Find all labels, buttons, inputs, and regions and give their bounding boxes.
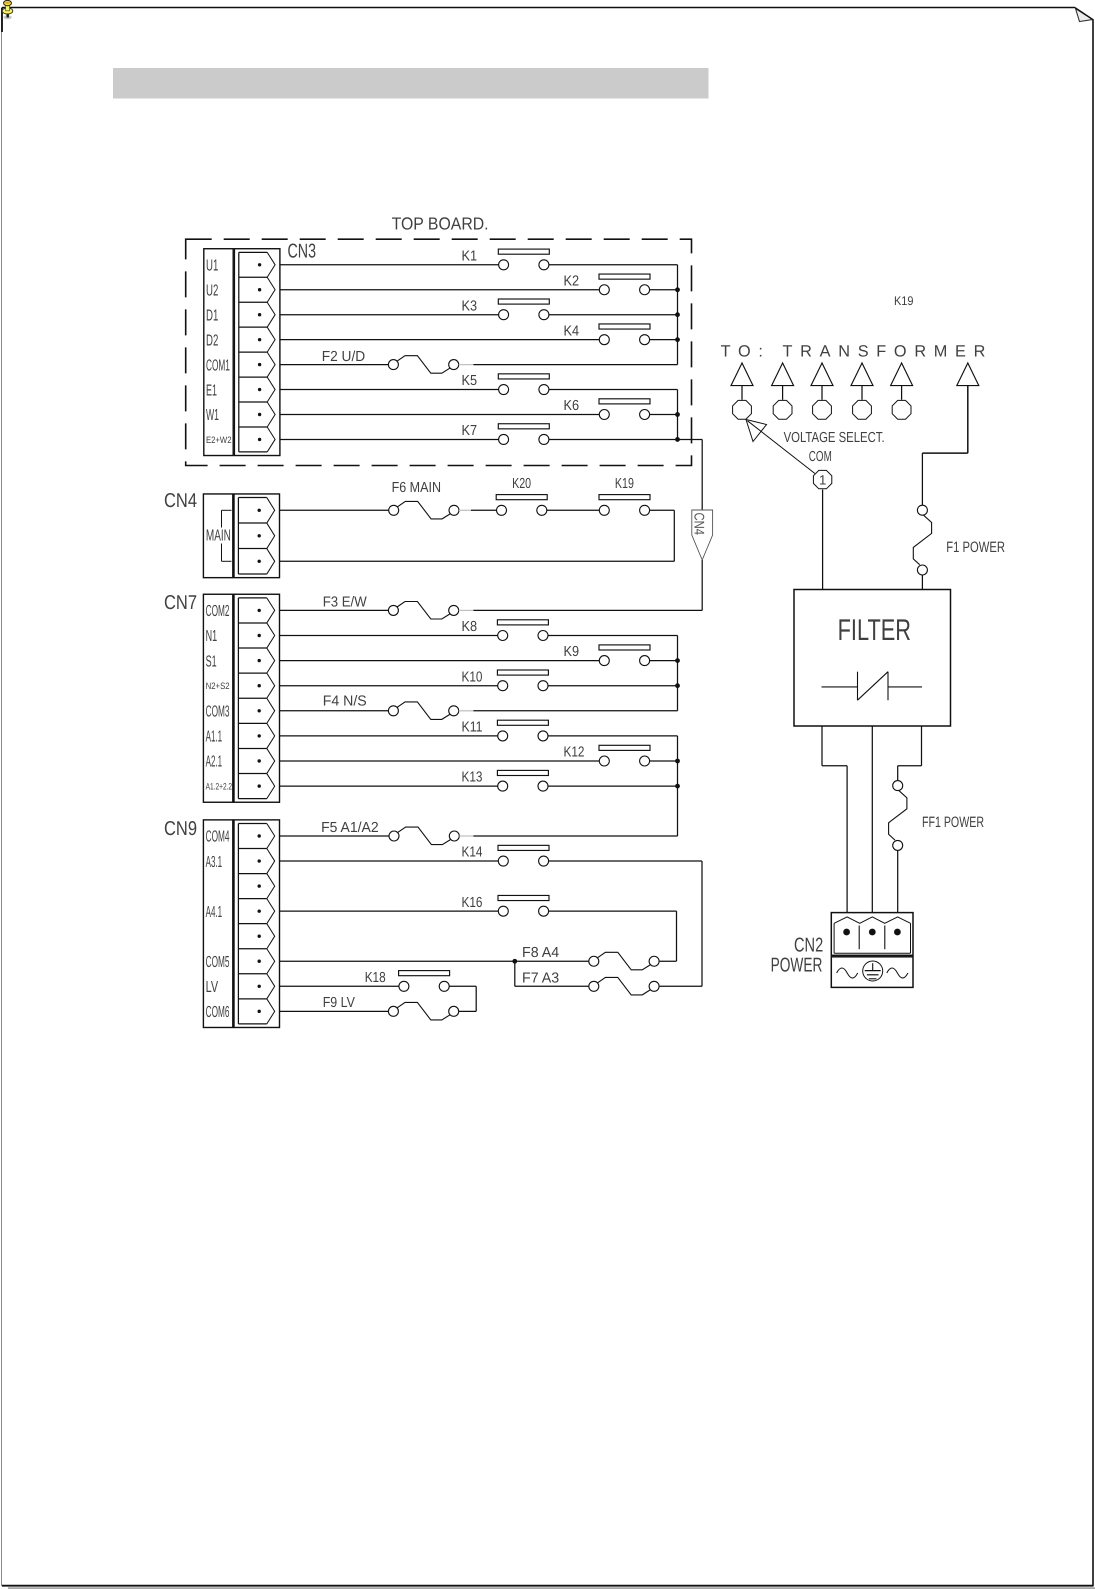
relay K1 — [462, 248, 550, 269]
svg-text:CN3: CN3 — [288, 241, 317, 263]
svg-text:U2: U2 — [206, 282, 218, 299]
svg-text:F1 POWER: F1 POWER — [946, 539, 1005, 556]
relay K13 — [462, 770, 549, 791]
junction K7 — [675, 437, 680, 442]
wire COM3 to F4 — [280, 710, 388, 712]
svg-text:U1: U1 — [206, 258, 218, 275]
wire K11 to bus — [548, 735, 678, 737]
svg-text:CN7: CN7 — [164, 592, 197, 614]
svg-text:K3: K3 — [462, 298, 478, 314]
svg-text:K19: K19 — [894, 294, 914, 308]
fuse F7 — [522, 971, 659, 995]
svg-text:N1: N1 — [206, 628, 218, 645]
svg-text:COM: COM — [809, 449, 832, 465]
wire K12 to bus — [650, 760, 678, 762]
connector CN7 body — [203, 594, 279, 802]
fuse F1 — [913, 505, 1005, 575]
junction K4 — [675, 337, 680, 342]
wire A2.1 to K12 — [280, 760, 599, 762]
page right border — [1092, 20, 1094, 1587]
wire LV to K18 — [280, 985, 399, 987]
wire K8 to bus — [548, 635, 678, 637]
wire COM1 to F2 — [280, 364, 388, 366]
wire COM5 branch to F7 — [515, 961, 589, 986]
svg-text:K12: K12 — [564, 745, 585, 761]
fuse F4 — [323, 694, 459, 720]
wire D1 to K3 — [280, 314, 499, 316]
svg-text:K19: K19 — [615, 476, 634, 492]
page left border — [1, 8, 4, 1587]
svg-text:F6 MAIN: F6 MAIN — [392, 480, 441, 496]
junction K10 — [675, 683, 680, 688]
wire E1 to K5 — [280, 389, 499, 391]
svg-text:FILTER: FILTER — [838, 614, 911, 647]
wire K20 to K19 — [547, 509, 600, 511]
COM node 1 — [813, 470, 831, 488]
wire S1 to K9 — [280, 660, 599, 662]
junction COM5 branch — [512, 959, 517, 964]
wire K6 to bus — [650, 414, 678, 416]
connector CN2 body — [831, 913, 913, 956]
wire K5 to bus — [549, 389, 678, 391]
wire FILTER left out to CN2 pin1 — [822, 726, 847, 913]
svg-text:CN9: CN9 — [164, 818, 197, 840]
relay K7 — [462, 423, 550, 444]
wire A4.1 to K16 — [280, 910, 498, 912]
COM label — [809, 449, 832, 465]
CN2 POWER label — [771, 955, 823, 977]
wire A1.1 to K11 — [280, 735, 498, 737]
svg-text:N2+S2: N2+S2 — [206, 681, 230, 691]
transformer terminal arrow 6 — [957, 363, 979, 386]
svg-text:S1: S1 — [206, 653, 217, 670]
svg-text:A1.1: A1.1 — [206, 729, 223, 746]
wire U1 to K1 — [280, 264, 499, 266]
svg-text:K13: K13 — [462, 770, 483, 786]
transformer terminal arrow 4 — [851, 363, 873, 419]
page top border — [2, 7, 1075, 9]
wire K1 to bus — [549, 264, 678, 266]
wire to CN4 flag vertical — [701, 439, 703, 510]
svg-text:K2: K2 — [564, 273, 580, 289]
fuse F2 — [322, 349, 459, 373]
CN4 MAIN group label — [206, 510, 232, 561]
svg-text:D2: D2 — [206, 332, 218, 349]
svg-text:F9 LV: F9 LV — [323, 995, 356, 1011]
CN2 lower section with AC and earth symbols — [831, 957, 913, 988]
relay K20 — [496, 476, 547, 515]
svg-text:K4: K4 — [564, 323, 580, 339]
wire K10 to bus — [548, 685, 678, 687]
wire E2+W2 to K7 — [280, 438, 499, 440]
bus wire K11-F5 vertical — [677, 736, 679, 836]
wire A3.1 to K14 — [280, 860, 498, 862]
wire K19 return loop to CN4 pin3 — [280, 510, 674, 561]
TOP BOARD title — [392, 214, 489, 234]
wire COM to FILTER — [822, 490, 824, 590]
node flag CN4 — [691, 510, 712, 560]
bus wire K8-F4 vertical — [677, 636, 679, 711]
junction K12 row — [675, 759, 680, 764]
bus wire K5-K7 vertical — [677, 390, 679, 440]
wire F2 to bus (gray then black) — [459, 364, 678, 366]
wire F1 to FILTER — [921, 575, 923, 590]
wire FF1 to CN2 pin3 — [897, 850, 899, 912]
svg-text:F3 E/W: F3 E/W — [323, 595, 367, 611]
VOLTAGE SELECT. label — [784, 430, 885, 446]
wire CN4 flag to F3 output — [701, 560, 703, 610]
svg-text:F5 A1/A2: F5 A1/A2 — [321, 820, 379, 836]
wire FILTER mid out to CN2 pin2 — [871, 726, 873, 913]
relay K6 — [564, 398, 651, 419]
svg-text:CN4: CN4 — [691, 513, 707, 536]
svg-text:K16: K16 — [462, 895, 483, 911]
stray label K19 — [894, 294, 914, 308]
junction K3 — [675, 312, 680, 317]
junction K6 — [675, 412, 680, 417]
svg-text:COM5: COM5 — [206, 954, 230, 971]
svg-text:COM6: COM6 — [206, 1004, 230, 1021]
top board dashed boundary — [186, 239, 692, 465]
svg-text:K10: K10 — [462, 669, 483, 685]
svg-text:A2.1: A2.1 — [206, 754, 223, 771]
relay K4 — [564, 323, 651, 344]
svg-text:W1: W1 — [206, 407, 219, 424]
transformer terminal arrow 3 — [811, 363, 833, 419]
connector CN3 body — [204, 249, 280, 456]
bus wire K1-F2 vertical — [677, 265, 679, 365]
wire A1.2+2.2 to K13 — [280, 785, 498, 787]
svg-text:CN2: CN2 — [794, 935, 823, 957]
folded page corner — [1075, 8, 1093, 22]
fuse F3 — [323, 595, 459, 619]
transformer terminal arrow 1 — [731, 363, 753, 419]
wire K16 to F8 loop — [549, 911, 677, 961]
connector CN9 body — [203, 820, 279, 1028]
svg-text:K7: K7 — [462, 423, 478, 439]
relay K2 — [564, 273, 651, 294]
wire COM5 to F8 — [280, 960, 589, 962]
wire COM6 to F9 — [280, 1010, 388, 1012]
svg-text:COM2: COM2 — [206, 603, 230, 620]
wire transformer arrow 6 to F1 — [922, 386, 967, 506]
wire K7 to CN4 flag — [549, 438, 702, 440]
pushpin icon — [2, 0, 13, 19]
CN2 designator label — [794, 935, 823, 957]
relay K5 — [462, 373, 550, 394]
svg-text:TO: TRANSFORMER: TO: TRANSFORMER — [721, 343, 986, 361]
relay K16 — [462, 895, 550, 916]
svg-text:K14: K14 — [462, 845, 483, 861]
svg-text:F2 U/D: F2 U/D — [322, 349, 366, 365]
wire F6 to K20 — [459, 509, 496, 511]
fuse F8 — [522, 945, 659, 970]
svg-text:POWER: POWER — [771, 955, 823, 977]
svg-text:COM4: COM4 — [206, 829, 230, 846]
transformer terminal arrow 5 — [891, 363, 913, 419]
wire D2 to K4 — [280, 339, 599, 341]
wire U2 to K2 — [280, 289, 599, 291]
wire K4 to bus — [650, 339, 678, 341]
svg-text:K6: K6 — [564, 398, 580, 414]
wire W1 to K6 — [280, 414, 599, 416]
svg-text:K11: K11 — [462, 720, 483, 736]
svg-text:CN4: CN4 — [164, 490, 197, 512]
wire K13 to bus — [548, 785, 678, 787]
svg-text:K8: K8 — [462, 619, 478, 635]
svg-text:COM3: COM3 — [206, 704, 230, 721]
junction K2 — [675, 287, 680, 292]
wire CN4 pin1 to F6 — [280, 509, 389, 511]
svg-text:E2+W2: E2+W2 — [206, 435, 232, 445]
svg-text:F7 A3: F7 A3 — [522, 971, 559, 987]
relay K11 — [462, 720, 549, 741]
wire K2 to bus — [650, 289, 678, 291]
svg-text:K20: K20 — [512, 476, 531, 492]
svg-text:A4.1: A4.1 — [206, 904, 223, 921]
wire K3 to bus — [549, 314, 678, 316]
relay K8 — [462, 619, 549, 640]
fuse F5 — [321, 820, 459, 844]
svg-text:LV: LV — [206, 979, 219, 996]
relay K12 — [564, 745, 651, 766]
page bottom border — [2, 1586, 1095, 1589]
svg-text:D1: D1 — [206, 307, 218, 324]
wire FILTER right out to FF1 — [898, 726, 922, 781]
wire COM4 to F5 — [280, 835, 389, 837]
wire COM2 to F3 — [280, 609, 388, 611]
wire K14 to F7 loop — [549, 861, 702, 986]
svg-text:F4 N/S: F4 N/S — [323, 694, 367, 710]
voltage select leader arrow — [746, 420, 815, 474]
svg-text:TOP BOARD.: TOP BOARD. — [392, 214, 489, 234]
wire F3 to CN4 flag — [459, 609, 703, 611]
TO: TRANSFORMER label — [721, 343, 986, 361]
FILTER box U2 — [794, 590, 951, 727]
relay K19 — [599, 476, 650, 515]
svg-text:K18: K18 — [365, 970, 386, 986]
junction K9 — [675, 658, 680, 663]
svg-text:A3.1: A3.1 — [206, 854, 223, 871]
svg-text:1: 1 — [819, 473, 827, 488]
svg-text:E1: E1 — [206, 382, 217, 399]
transformer terminal arrow 2 — [772, 363, 794, 419]
relay K18 — [365, 970, 450, 991]
relay K9 — [564, 644, 651, 665]
wire F4 to bus — [459, 710, 678, 712]
svg-text:A1.2+2.2: A1.2+2.2 — [206, 782, 233, 792]
junction K13 row — [675, 784, 680, 789]
wire K18 to F9 loop — [449, 986, 476, 1011]
svg-text:K1: K1 — [462, 248, 478, 264]
wire N1 to K8 — [280, 635, 498, 637]
svg-text:VOLTAGE SELECT.: VOLTAGE SELECT. — [784, 430, 885, 446]
svg-text:FF1 POWER: FF1 POWER — [922, 814, 984, 831]
svg-text:K5: K5 — [462, 373, 478, 389]
relay K10 — [462, 669, 549, 690]
svg-text:COM1: COM1 — [206, 357, 230, 374]
fuse F9 — [323, 995, 459, 1020]
wire F5 to bus — [459, 835, 677, 837]
relay K3 — [462, 298, 550, 319]
wire K9 to bus — [650, 660, 678, 662]
svg-text:K9: K9 — [564, 644, 580, 660]
svg-text:F8 A4: F8 A4 — [522, 945, 559, 961]
fuse F6 — [389, 480, 459, 519]
svg-text:MAIN: MAIN — [206, 527, 231, 544]
relay K14 — [462, 845, 550, 866]
connector CN4 body — [203, 494, 279, 578]
redacted title bar — [113, 68, 709, 99]
wire N2+S2 to K10 — [280, 685, 498, 687]
fuse FF1 — [889, 781, 985, 851]
